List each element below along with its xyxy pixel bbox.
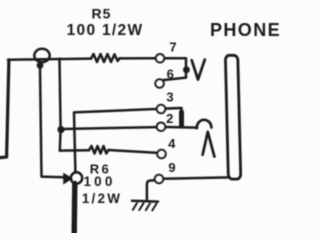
wire pin 9 to jack frame	[164, 177, 229, 178]
junction dot on bracket	[183, 66, 190, 73]
wire left vertical with exit stub at left edge	[0, 60, 9, 158]
svg-text:4: 4	[168, 136, 176, 151]
svg-text:9: 9	[168, 160, 175, 175]
svg-text:1/2W: 1/2W	[82, 191, 122, 206]
svg-text:R5: R5	[92, 6, 112, 22]
wire R6 lead left	[60, 149, 89, 152]
thick part of bracket	[179, 112, 184, 126]
wire bracket pin 7 to pin 6	[164, 58, 186, 80]
pin 6 terminal	[155, 79, 163, 87]
svg-text:2: 2	[166, 111, 173, 126]
pin 4 terminal	[157, 150, 165, 158]
wire from grommet dot down then right to lower grommet	[40, 68, 64, 177]
grommet feedthrough 2 (circle with filled wedge)	[63, 172, 82, 184]
svg-text:6: 6	[167, 66, 174, 81]
wire pin 9 down to ground	[147, 180, 154, 199]
contact rest dome	[197, 120, 212, 128]
switch contact V	[192, 60, 205, 80]
resistor R6 zigzag	[89, 146, 109, 154]
pin 3 terminal	[157, 105, 165, 113]
chassis ground symbol	[132, 201, 158, 211]
wire top horizontal from left corner to pin 7	[8, 58, 155, 60]
wire from R6 to pin 4	[109, 150, 157, 153]
thick shield wire to bottom edge	[71, 184, 77, 234]
wire bracket pin 3 to pin 2 wire	[166, 108, 182, 127]
phone jack frame	[225, 55, 240, 179]
resistor R5 zigzag	[91, 54, 120, 62]
svg-text:100: 100	[83, 174, 115, 189]
wire branch vertical from top wire down to junction and R6 corner	[60, 59, 61, 151]
svg-text:PHONE: PHONE	[210, 20, 281, 40]
svg-text:7: 7	[169, 40, 176, 55]
pin 7 terminal	[156, 54, 164, 62]
svg-text:3: 3	[166, 89, 173, 104]
svg-text:100 1/2W: 100 1/2W	[67, 22, 144, 39]
pin 2 terminal	[157, 123, 165, 131]
grommet feedthrough (circle with dot) on top wire	[34, 49, 49, 69]
junction dot	[57, 126, 64, 133]
switch contact lambda	[203, 132, 215, 157]
pin 9 terminal	[155, 175, 163, 183]
wire from junction to pin 2	[64, 127, 156, 129]
wire pin 3 lead with corner down the shield line	[74, 109, 156, 172]
wire pin 2 to contact rest	[166, 126, 197, 129]
